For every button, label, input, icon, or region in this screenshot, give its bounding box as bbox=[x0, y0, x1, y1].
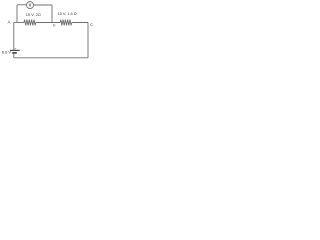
svg-text:b: b bbox=[53, 23, 55, 27]
battery negative plate (short thick) bbox=[12, 52, 17, 54]
wire R2 to corner C bbox=[72, 22, 88, 24]
wire R1 to node b bbox=[36, 22, 61, 24]
wire voltmeter right riser bbox=[51, 5, 53, 23]
battery positive plate (long) bbox=[10, 49, 20, 51]
wire right vertical bbox=[87, 23, 89, 58]
wire voltmeter left riser bbox=[16, 5, 18, 23]
svg-text:V: V bbox=[29, 3, 32, 8]
resistor R1 (15 V, 2 ohm) bbox=[24, 20, 36, 26]
wire voltmeter left lead bbox=[17, 4, 27, 6]
wire left vertical bbox=[13, 23, 15, 51]
junction node b bbox=[51, 22, 52, 23]
voltmeter V circle bbox=[27, 2, 34, 9]
wire battery to bottom bbox=[13, 54, 15, 58]
wire top left segment (node A to R1) bbox=[14, 22, 24, 24]
resistor R2 (15 V, 1 ohm) bbox=[60, 20, 71, 26]
wire voltmeter right lead bbox=[34, 4, 53, 6]
svg-text:15 V, 1.5 Ω: 15 V, 1.5 Ω bbox=[58, 11, 77, 16]
wire bottom bbox=[14, 57, 88, 59]
svg-text:6.0 V: 6.0 V bbox=[2, 49, 12, 54]
svg-text:A: A bbox=[8, 20, 11, 25]
svg-text:+: + bbox=[14, 46, 16, 50]
svg-text:15 V, 2Ω: 15 V, 2Ω bbox=[26, 13, 41, 17]
